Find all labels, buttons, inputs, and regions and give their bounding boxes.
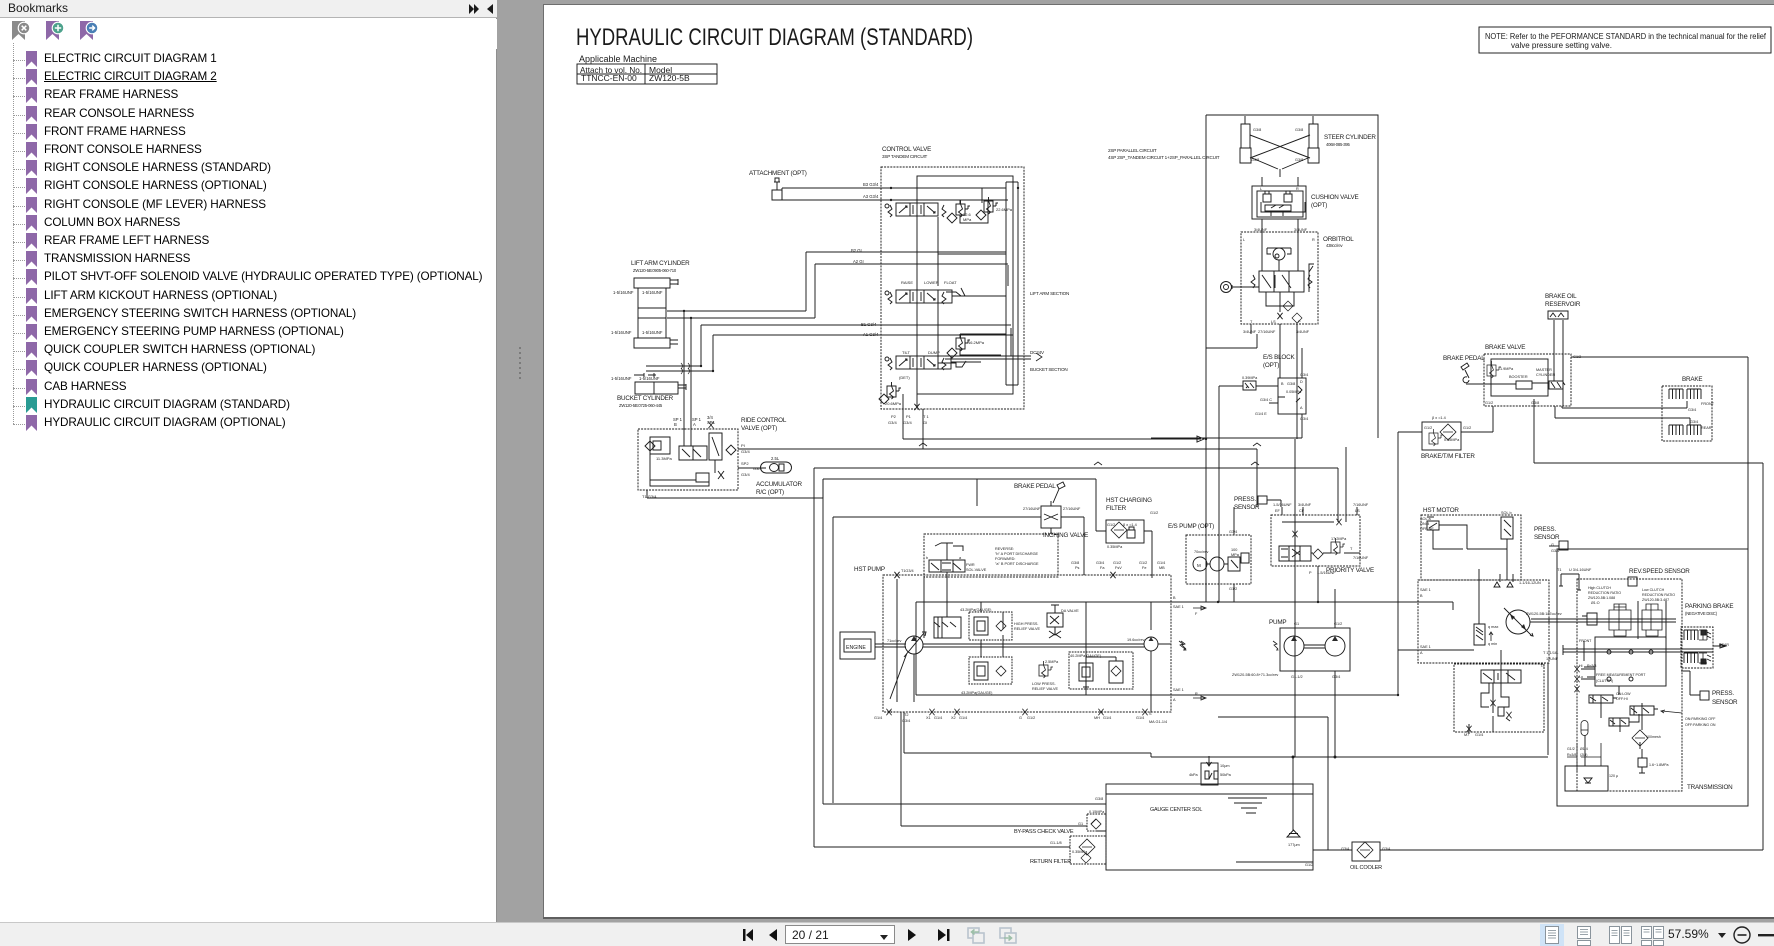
svg-text:Fe: Fe xyxy=(1142,566,1146,570)
svg-text:0.39MPa: 0.39MPa xyxy=(1242,376,1258,380)
svg-text:(OPT): (OPT) xyxy=(1263,362,1279,369)
right long lines xyxy=(1534,357,1763,850)
priority valve relief 17.2MPa xyxy=(1331,538,1345,555)
svg-text:20.6MPa: 20.6MPa xyxy=(885,401,902,406)
steering/work pump unit housing xyxy=(1280,628,1350,671)
svg-text:RAISE: RAISE xyxy=(901,280,913,285)
svg-text:G1-1/8: G1-1/8 xyxy=(1050,841,1062,845)
svg-text:G3/4: G3/4 xyxy=(753,466,762,471)
svg-text:SAE 1: SAE 1 xyxy=(1173,688,1184,692)
rail y=448: ride control PI / CV T1 to E/S block xyxy=(923,449,1257,507)
svg-text:G1/2: G1/2 xyxy=(1229,587,1237,591)
charging filter element xyxy=(1111,522,1127,538)
return wires to tank G3/8 / bypass G1 / return filter G1-1/8 xyxy=(814,804,1106,847)
svg-text:E/S BLOCK: E/S BLOCK xyxy=(1263,354,1295,361)
svg-text:G3/8: G3/8 xyxy=(1531,401,1539,405)
svg-text:High CLUTCH: High CLUTCH xyxy=(1588,586,1611,590)
e/s pump suction/discharge wires xyxy=(1233,507,1235,602)
svg-text:G3/8: G3/8 xyxy=(1095,797,1103,801)
internal vertical bus xyxy=(1006,182,1018,385)
filter xyxy=(1632,730,1648,746)
svg-text:G3/4: G3/4 xyxy=(1688,408,1696,412)
internals: accumulator, spool, solenoid valve xyxy=(650,437,670,454)
svg-text:RESERVOIR: RESERVOIR xyxy=(1545,301,1581,308)
svg-text:MPa: MPa xyxy=(963,217,972,222)
clutch packs xyxy=(1609,604,1631,636)
lift arm cylinder xyxy=(634,278,678,288)
svg-text:G3/4: G3/4 xyxy=(1551,549,1559,553)
svg-text:G3/4: G3/4 xyxy=(1300,373,1308,377)
svg-text:1-5/16UNF: 1-5/16UNF xyxy=(642,290,663,295)
svg-text:HYDRAULIC CIRCUIT DIAGRAM (STA: HYDRAULIC CIRCUIT DIAGRAM (STANDARD) xyxy=(576,24,973,51)
svg-text:HST MOTOR: HST MOTOR xyxy=(1423,507,1459,514)
vertical runs to ride control xyxy=(684,311,691,446)
DA valve xyxy=(1047,605,1063,627)
ride control valve box xyxy=(638,429,738,490)
svg-text:A2 GI: A2 GI xyxy=(853,259,864,264)
svg-text:(NEGATIVE DISC): (NEGATIVE DISC) xyxy=(1685,611,1718,616)
priority valve port wires P/EF/CF/LS xyxy=(1282,447,1357,602)
svg-text:B3 G3/4: B3 G3/4 xyxy=(863,182,879,187)
fluid level mark xyxy=(1228,798,1267,813)
svg-text:CUSHION VALVE: CUSHION VALVE xyxy=(1311,194,1359,201)
svg-text:MH: MH xyxy=(1094,716,1100,720)
svg-text:BUCKET CYLINDER: BUCKET CYLINDER xyxy=(617,395,674,402)
servo piston xyxy=(934,617,961,638)
svg-text:ENGINE: ENGINE xyxy=(846,645,866,651)
svg-text:22.6MPa: 22.6MPa xyxy=(996,207,1013,212)
svg-text:17.2MPa: 17.2MPa xyxy=(1331,537,1347,541)
svg-text:A3 G3/4: A3 G3/4 xyxy=(863,194,879,199)
cross links xyxy=(1250,135,1310,177)
FWR pilot orifice + wires xyxy=(935,543,963,560)
plug X P branch xyxy=(1292,531,1297,537)
B/A rails to right xyxy=(916,602,1418,695)
svg-text:1-5/16UNF: 1-5/16UNF xyxy=(639,376,660,381)
svg-text:19.6cc/rev: 19.6cc/rev xyxy=(1127,638,1145,642)
electric motor M xyxy=(1193,557,1207,571)
svg-text:T: T xyxy=(1350,547,1353,551)
svg-text:G3/4: G3/4 xyxy=(903,420,912,425)
breather xyxy=(1201,763,1218,785)
svg-text:OIL COOLER: OIL COOLER xyxy=(1350,865,1382,871)
svg-text:G1/2: G1/2 xyxy=(1027,716,1035,720)
svg-text:INCHING VALVE: INCHING VALVE xyxy=(1043,532,1088,539)
svg-text:CF: CF xyxy=(1299,509,1305,513)
svg-text:Lo: Lo xyxy=(1579,675,1583,679)
svg-text:3SP TANDEM CIRCUIT: 3SP TANDEM CIRCUIT xyxy=(882,154,928,159)
relief valves attachment xyxy=(956,200,970,217)
svg-text:G1/4: G1/4 xyxy=(1475,733,1483,737)
Hi/Lo X valves xyxy=(1574,666,1579,672)
svg-text:PUMP: PUMP xyxy=(1269,619,1286,626)
flush valve section xyxy=(1454,664,1544,732)
brake t/m filter xyxy=(1422,422,1461,450)
priority valve check valve xyxy=(1313,549,1323,559)
svg-text:PARKING BRAKE: PARKING BRAKE xyxy=(1685,603,1733,610)
pressure sensor PS1 xyxy=(1258,496,1267,504)
svg-text:G1/4: G1/4 xyxy=(1157,561,1165,565)
svg-text:HST PUMP: HST PUMP xyxy=(854,566,885,573)
svg-text:PRESS.: PRESS. xyxy=(1234,496,1256,503)
svg-text:4068-085-395: 4068-085-395 xyxy=(1326,142,1351,147)
svg-text:SAE 1: SAE 1 xyxy=(1173,605,1184,609)
rail y=467 to priority LS xyxy=(814,468,1338,847)
outer solid box xyxy=(1557,549,1748,806)
svg-text:ATTACHMENT (OPT): ATTACHMENT (OPT) xyxy=(749,170,807,177)
svg-text:STEER CYLINDER: STEER CYLINDER xyxy=(1324,134,1376,141)
svg-text:DA VALVE: DA VALVE xyxy=(1061,609,1079,613)
svg-text:P: P xyxy=(1298,320,1301,324)
svg-text:G1/2: G1/2 xyxy=(1485,401,1493,405)
svg-text:HIGH PRESS.: HIGH PRESS. xyxy=(1014,622,1038,626)
svg-text:ZW120-5B: ZW120-5B xyxy=(649,73,690,83)
svg-text:T2: T2 xyxy=(904,713,908,717)
tilt spool xyxy=(888,356,946,370)
lines below orbitrol xyxy=(1206,324,1297,439)
svg-text:ON:B: ON:B xyxy=(1420,522,1430,526)
svg-text:SENSOR: SENSOR xyxy=(1534,534,1560,541)
gerotor xyxy=(1273,248,1285,260)
junction node on drain rail xyxy=(1334,756,1336,758)
svg-text:1-5/16UNF: 1-5/16UNF xyxy=(1317,571,1336,575)
svg-text:T1G3/4: T1G3/4 xyxy=(901,569,914,573)
priority valve internal wires xyxy=(1282,522,1360,553)
svg-text:F: F xyxy=(1195,612,1198,616)
svg-text:1-5/16UNF: 1-5/16UNF xyxy=(642,330,663,335)
svg-text:CYLINDER: CYLINDER xyxy=(1536,373,1555,377)
cooler line y=849 + strainer drop + suction pipe xyxy=(1097,757,1763,862)
svg-text:ZW120-5B:60.8+71.3cc/rev: ZW120-5B:60.8+71.3cc/rev xyxy=(1232,673,1278,677)
svg-text:RIDE CONTROL: RIDE CONTROL xyxy=(741,417,787,424)
svg-text:CONTROL VALVE: CONTROL VALVE xyxy=(882,146,931,153)
svg-text:ZW120-5B:1.088: ZW120-5B:1.088 xyxy=(1588,596,1615,600)
svg-text:L: L xyxy=(1243,238,1245,242)
svg-text:LS: LS xyxy=(1271,320,1276,324)
svg-text:R: R xyxy=(1296,187,1299,191)
pump drive shaft xyxy=(1304,645,1325,648)
svg-text:70cc/rev: 70cc/rev xyxy=(1194,550,1208,554)
svg-text:REVERSE:: REVERSE: xyxy=(995,547,1014,551)
svg-text:ON:LOW: ON:LOW xyxy=(1616,692,1631,696)
svg-text:G1/2: G1/2 xyxy=(1567,747,1575,751)
svg-text:(OPT): (OPT) xyxy=(1311,202,1327,209)
svg-text:REDUCTION RATIO: REDUCTION RATIO xyxy=(1642,593,1675,597)
return filter xyxy=(1070,836,1106,864)
main loop lines xyxy=(914,577,1171,712)
svg-text:1-5/16UNF: 1-5/16UNF xyxy=(1273,503,1292,507)
spool xyxy=(1259,271,1304,292)
svg-text:G3/4: G3/4 xyxy=(1300,417,1308,421)
FWR sol valve sub-box xyxy=(924,534,1058,577)
svg-text:G3/4 C: G3/4 C xyxy=(1260,398,1272,402)
40.2 MPa gauge block xyxy=(1069,652,1133,689)
brake box xyxy=(1662,386,1712,441)
svg-text:(DET): (DET) xyxy=(899,375,910,380)
svg-text:FILTER: FILTER xyxy=(1106,505,1127,512)
svg-text:43.2MPa(GAUGE): 43.2MPa(GAUGE) xyxy=(961,691,993,695)
svg-text:4SP 2SP_TANDEM CIRCUIT 1+2SP_P: 4SP 2SP_TANDEM CIRCUIT 1+2SP_PARALLEL CI… xyxy=(1108,155,1220,160)
inching valve body xyxy=(1041,506,1061,528)
svg-text:Rc3/8: Rc3/8 xyxy=(1567,753,1576,757)
pump circle G1/2 (71.3cc) xyxy=(1325,636,1345,656)
svg-text:BRAKE VALVE: BRAKE VALVE xyxy=(1485,344,1525,351)
svg-text:G: G xyxy=(1019,716,1022,720)
engine xyxy=(840,632,875,659)
svg-text:B2 GI: B2 GI xyxy=(851,248,862,253)
svg-text:1.6~1.8MPa: 1.6~1.8MPa xyxy=(1649,763,1668,767)
svg-text:G1/2: G1/2 xyxy=(1424,426,1432,430)
svg-text:G3/4: G3/4 xyxy=(888,420,897,425)
svg-text:0.35MPa: 0.35MPa xyxy=(1107,545,1123,549)
svg-text:T: T xyxy=(1250,320,1253,324)
svg-text:G3/4: G3/4 xyxy=(1229,530,1237,534)
svg-text:T 1: T 1 xyxy=(923,414,929,419)
P1 line down then right to steering (arrow) xyxy=(903,436,1204,442)
svg-text:3/4UNF: 3/4UNF xyxy=(1243,330,1257,334)
high press relief xyxy=(969,612,1012,640)
svg-text:ON:PARKING OFF: ON:PARKING OFF xyxy=(1685,717,1716,721)
master cylinder piston xyxy=(1516,381,1565,389)
svg-text:a: a xyxy=(959,556,962,560)
svg-text:177μm: 177μm xyxy=(1288,843,1300,847)
wires to/from charging filter xyxy=(1096,531,1152,578)
svg-text:SP2: SP2 xyxy=(741,461,749,466)
svg-text:P: P xyxy=(1309,571,1312,575)
svg-text:ZW120-5B:0905-060-710: ZW120-5B:0905-060-710 xyxy=(633,268,677,273)
svg-text:2SP PARALLEL CIRCUIT: 2SP PARALLEL CIRCUIT xyxy=(1108,148,1157,153)
svg-text:10μm: 10μm xyxy=(1220,764,1230,768)
pump circle G1 (60.8cc) xyxy=(1284,636,1304,656)
svg-text:FsV: FsV xyxy=(1115,566,1122,570)
wire bridge jogs xyxy=(919,443,1261,465)
relief bottom xyxy=(1638,749,1647,773)
svg-text:0.35MPa: 0.35MPa xyxy=(1444,438,1460,442)
svg-text:Applicable Machine: Applicable Machine xyxy=(579,54,657,64)
below spool: LS/X/checks xyxy=(1266,292,1294,312)
svg-text:G1/4 E: G1/4 E xyxy=(1255,412,1267,416)
bypass check valve xyxy=(1087,814,1106,831)
charging filter bypass valve 0.35MPa xyxy=(1127,527,1135,538)
svg-text:G3/4: G3/4 xyxy=(902,719,910,723)
svg-text:A: A xyxy=(693,422,696,427)
svg-text:"b" A PORT DISCHARGE: "b" A PORT DISCHARGE xyxy=(995,552,1039,556)
svg-text:1.9MPa: 1.9MPa xyxy=(1500,367,1514,371)
svg-text:Fa: Fa xyxy=(1100,566,1105,570)
svg-text:REV.SPEED SENSOR: REV.SPEED SENSOR xyxy=(1629,568,1690,575)
svg-text:Ø1.4: Ø1.4 xyxy=(1580,747,1588,751)
svg-text:T3: T3 xyxy=(1540,664,1544,668)
wire x=1397 from brake filter line down to A-rail xyxy=(1397,432,1399,650)
clutch text xyxy=(1567,586,1729,778)
cushion valve xyxy=(1262,177,1298,186)
svg-text:438cc/rev: 438cc/rev xyxy=(1326,243,1343,248)
svg-text:OFF:NF: OFF:NF xyxy=(1420,527,1434,531)
svg-text:OFF:PARKING ON: OFF:PARKING ON xyxy=(1685,723,1716,727)
junction node on drain rail xyxy=(1292,756,1294,758)
accumulator small xyxy=(1581,721,1588,736)
gear box xyxy=(1595,637,1666,686)
shaft coupling lightning marks xyxy=(1181,641,1278,650)
svg-text:TILT: TILT xyxy=(902,350,910,355)
steer cylinder left xyxy=(1240,116,1251,163)
svg-text:ACCUMULATOR: ACCUMULATOR xyxy=(756,481,802,488)
svg-text:100mesh: 100mesh xyxy=(1646,735,1661,739)
svg-text:B: B xyxy=(1173,596,1176,600)
FWR solenoid valve xyxy=(929,560,965,572)
svg-text:B1 G3/4: B1 G3/4 xyxy=(861,322,877,327)
svg-text:MB: MB xyxy=(1159,566,1165,570)
svg-text:RETURN FILTER: RETURN FILTER xyxy=(1030,859,1071,865)
svg-text:BRAKE PEDAL: BRAKE PEDAL xyxy=(1443,355,1485,362)
svg-text:G1/2: G1/2 xyxy=(1463,426,1471,430)
DC24V double line xyxy=(945,356,1031,359)
svg-text:G3/4: G3/4 xyxy=(1332,675,1340,679)
svg-text:Ø1:O: Ø1:O xyxy=(1591,601,1600,605)
svg-text:FLOAT: FLOAT xyxy=(944,280,957,285)
svg-text:FRONT: FRONT xyxy=(1579,639,1592,643)
strainer xyxy=(1584,778,1592,783)
svg-text:PRESS.: PRESS. xyxy=(1534,526,1556,533)
svg-text:TTNCC-EN-00: TTNCC-EN-00 xyxy=(581,73,637,83)
lines from lift arm cylinder xyxy=(667,252,815,318)
tilt relief xyxy=(956,334,970,351)
orbitrol dashed box xyxy=(1241,232,1318,324)
svg-text:SOL.VALVE: SOL.VALVE xyxy=(966,568,987,572)
junction nodes on B rail / A rail / P feed xyxy=(1205,438,1399,696)
svg-text:BY-PASS CHECK VALVE: BY-PASS CHECK VALVE xyxy=(1014,829,1074,835)
svg-text:ZW120-5B:0725-060-445: ZW120-5B:0725-060-445 xyxy=(619,403,663,408)
inching valve variable orifice xyxy=(1044,501,1058,520)
svg-text:M7: M7 xyxy=(1464,733,1469,737)
priority valve spool xyxy=(1279,546,1311,561)
svg-text:MASTER: MASTER xyxy=(1536,368,1552,372)
svg-text:11.3MPa: 11.3MPa xyxy=(656,456,672,461)
svg-text:FRONT: FRONT xyxy=(1701,402,1715,406)
svg-text:G3/4: G3/4 xyxy=(741,472,750,477)
svg-text:β x =1.4: β x =1.4 xyxy=(1123,523,1137,527)
sump box xyxy=(1565,766,1608,791)
svg-text:3/4UNF: 3/4UNF xyxy=(1296,330,1310,334)
svg-text:GI: GI xyxy=(923,420,927,425)
svg-text:(2LI): (2LI) xyxy=(1580,753,1587,757)
svg-text:0.15MPa: 0.15MPa xyxy=(1089,810,1105,814)
svg-text:G3/8: G3/8 xyxy=(1071,561,1079,565)
svg-text:ORBITROL: ORBITROL xyxy=(1323,236,1354,243)
svg-text:G1/2: G1/2 xyxy=(1305,863,1313,867)
svg-text:FORWARD:: FORWARD: xyxy=(995,557,1015,561)
svg-text:b: b xyxy=(926,556,928,560)
svg-text:LIFT ARM SECTION: LIFT ARM SECTION xyxy=(1030,291,1069,296)
svg-text:X1: X1 xyxy=(926,716,931,720)
svg-text:PRESS.: PRESS. xyxy=(1712,690,1734,697)
svg-text:G1/2: G1/2 xyxy=(1139,561,1147,565)
svg-text:M: M xyxy=(1197,563,1201,568)
svg-text:3/4UNF: 3/4UNF xyxy=(1254,228,1268,232)
svg-text:valve pressure setting valve.: valve pressure setting valve. xyxy=(1511,41,1612,50)
svg-text:27/16UNF: 27/16UNF xyxy=(1258,330,1276,334)
svg-text:SOL b: SOL b xyxy=(1501,511,1512,515)
axle xyxy=(1563,644,1726,652)
parking brake solenoid xyxy=(1630,706,1658,715)
A rail jog xyxy=(1171,650,1418,695)
svg-text:100: 100 xyxy=(1231,548,1237,552)
svg-text:ZW120-5B:3.487: ZW120-5B:3.487 xyxy=(1642,598,1669,602)
lightning xyxy=(1179,641,1185,650)
e/s pump check valve + relief 100MPa xyxy=(1207,553,1249,571)
HST charging filter housing xyxy=(1106,520,1144,543)
svg-text:B: B xyxy=(674,422,677,427)
sol valves top xyxy=(1427,517,1447,530)
svg-text:SOL a: SOL a xyxy=(1420,517,1432,521)
wire from sensor PS1 xyxy=(1267,500,1281,507)
svg-text:BRAKE/T/M FILTER: BRAKE/T/M FILTER xyxy=(1421,453,1475,460)
svg-text:G1/2: G1/2 xyxy=(1107,523,1115,527)
svg-text:SAE 1: SAE 1 xyxy=(1420,588,1431,592)
svg-text:120 μ: 120 μ xyxy=(1609,774,1618,778)
svg-text:A1 G3/4: A1 G3/4 xyxy=(863,332,879,337)
svg-text:REAR: REAR xyxy=(1701,426,1712,430)
svg-text:BRAKE: BRAKE xyxy=(1682,376,1702,383)
svg-text:LOWER: LOWER xyxy=(924,280,939,285)
inching connects down into hst box xyxy=(833,517,1084,803)
svg-text:VALVE (OPT): VALVE (OPT) xyxy=(741,425,777,432)
svg-text:TRANSMISSION: TRANSMISSION xyxy=(1687,784,1733,791)
svg-text:BOOSTER: BOOSTER xyxy=(1509,375,1528,379)
rev speed sensor xyxy=(1628,577,1637,586)
svg-text:ZW120-5B:187cc/rev: ZW120-5B:187cc/rev xyxy=(1526,612,1562,616)
svg-text:7/16UNF: 7/16UNF xyxy=(1353,503,1369,507)
svg-text:SENSOR: SENSOR xyxy=(1712,699,1738,706)
svg-text:Low CLUTCH: Low CLUTCH xyxy=(1642,588,1665,592)
drain rail y=752/756 (T2 to flush valve T) xyxy=(901,712,1548,826)
svg-text:1-5/16UNF: 1-5/16UNF xyxy=(611,376,632,381)
svg-text:G1/2: G1/2 xyxy=(1150,511,1158,515)
svg-text:MA G1-1/4: MA G1-1/4 xyxy=(1149,720,1167,724)
note box xyxy=(1479,27,1771,53)
press sensor 2 xyxy=(1700,691,1709,700)
motor circle xyxy=(1506,610,1530,634)
svg-text:G3/8: G3/8 xyxy=(1295,158,1303,162)
transmission dashed box xyxy=(1577,579,1682,791)
svg-text:0.35MPa: 0.35MPa xyxy=(1072,850,1088,854)
strainer + drain xyxy=(1287,830,1300,837)
svg-text:X2: X2 xyxy=(951,716,956,720)
svg-text:1-5/16UNF: 1-5/16UNF xyxy=(611,330,632,335)
svg-text:2.5MPa: 2.5MPa xyxy=(1045,660,1059,664)
svg-text:FWR: FWR xyxy=(966,563,975,567)
svg-text:27/16UNF: 27/16UNF xyxy=(1063,507,1081,511)
svg-text:G1/4: G1/4 xyxy=(959,716,967,720)
steering wheel xyxy=(1221,282,1232,293)
svg-text:G3/8: G3/8 xyxy=(1253,128,1261,132)
svg-text:B: B xyxy=(1420,594,1423,598)
svg-text:G3/4: G3/4 xyxy=(741,449,750,454)
svg-text:LIFT ARM CYLINDER: LIFT ARM CYLINDER xyxy=(631,260,690,267)
svg-text:HST CHARGING: HST CHARGING xyxy=(1106,497,1152,504)
outer steering box xyxy=(1151,115,1378,602)
svg-text:4kPa: 4kPa xyxy=(1189,773,1199,777)
svg-text:G1/4: G1/4 xyxy=(1136,716,1144,720)
svg-text:BRAKE PEDAL: BRAKE PEDAL xyxy=(1014,483,1056,490)
svg-text:PI: PI xyxy=(741,443,745,448)
steer cylinder right xyxy=(1308,116,1319,163)
svg-text:G1-1/2: G1-1/2 xyxy=(1291,675,1303,679)
bottom relief xyxy=(887,382,901,399)
svg-text:NOTE: Refer to the PEFORMANCE: NOTE: Refer to the PEFORMANCE STANDARD i… xyxy=(1485,32,1767,41)
attachment fitting xyxy=(772,178,782,200)
e/s pump 70cc/rev xyxy=(1210,557,1224,571)
